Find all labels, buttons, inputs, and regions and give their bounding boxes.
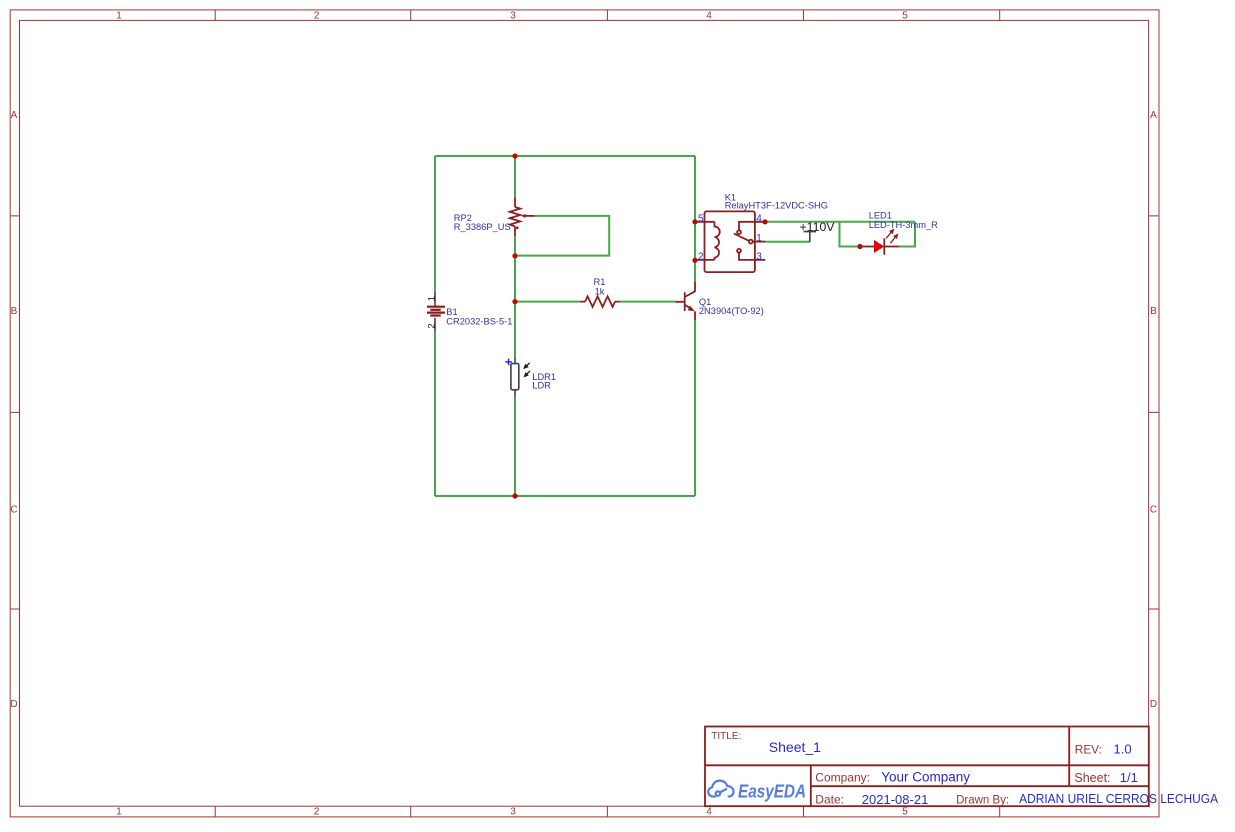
svg-text:1: 1 [426,296,437,301]
svg-text:3: 3 [510,807,516,818]
svg-text:4: 4 [706,807,712,818]
svg-text:A: A [1150,110,1157,121]
svg-text:2: 2 [314,11,320,22]
svg-text:D: D [10,699,17,710]
svg-text:D: D [1150,699,1157,710]
svg-text:B: B [11,306,18,317]
svg-text:Drawn By:: Drawn By: [956,795,1009,807]
svg-text:TITLE:: TITLE: [711,731,741,742]
svg-text:Sheet_1: Sheet_1 [769,739,821,755]
svg-text:CR2032-BS-5-1: CR2032-BS-5-1 [446,316,512,326]
svg-text:4: 4 [756,213,762,224]
svg-text:R_3386P_US: R_3386P_US [454,222,511,232]
svg-text:2: 2 [698,251,704,262]
svg-text:C: C [10,505,17,516]
svg-text:EasyEDA: EasyEDA [738,781,806,802]
svg-text:3: 3 [756,251,762,262]
svg-text:Company:: Company: [815,770,870,784]
svg-text:5: 5 [698,213,704,224]
svg-text:RelayHT3F-12VDC-SHG: RelayHT3F-12VDC-SHG [725,200,828,210]
svg-text:1: 1 [116,807,122,818]
svg-text:1: 1 [756,233,762,244]
svg-text:Date:: Date: [815,793,844,807]
svg-text:2021-08-21: 2021-08-21 [862,792,929,807]
svg-text:C: C [1150,505,1157,516]
svg-text:1.0: 1.0 [1114,742,1132,757]
svg-text:1: 1 [116,11,122,22]
svg-text:A: A [11,110,18,121]
svg-text:3: 3 [510,11,516,22]
svg-text:LED-TH-3mm_R: LED-TH-3mm_R [869,220,938,230]
svg-text:4: 4 [706,11,712,22]
svg-text:LDR: LDR [532,380,551,390]
svg-text:B: B [1150,306,1157,317]
svg-text:Sheet:: Sheet: [1074,771,1110,785]
svg-text:2N3904(TO-92): 2N3904(TO-92) [699,306,764,316]
svg-text:5: 5 [902,11,908,22]
svg-text:ADRIAN URIEL CERROS LECHUGA: ADRIAN URIEL CERROS LECHUGA [1019,791,1218,806]
svg-text:REV:: REV: [1075,743,1102,757]
svg-text:5: 5 [902,807,908,818]
svg-text:Your Company: Your Company [881,770,970,785]
svg-text:2: 2 [314,807,320,818]
svg-text:1k: 1k [595,286,605,296]
svg-text:LED1: LED1 [869,211,892,221]
svg-text:1/1: 1/1 [1120,770,1138,785]
svg-text:2: 2 [426,323,437,328]
